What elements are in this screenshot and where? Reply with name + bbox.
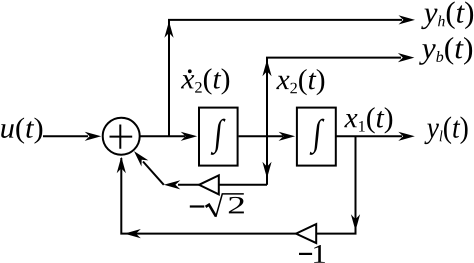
gain G1 (-sqrt2) triangle	[199, 175, 219, 194]
integrator U2	[297, 108, 336, 166]
wire: gain G2 output left and up into summer	[117, 157, 296, 238]
wire: gain G1 output left then diagonal into summer	[131, 148, 199, 189]
label: gain value -sqrt(2)	[190, 194, 244, 217]
wire: highpass branch up from summer output to y_h	[164, 15, 415, 136]
label: output y_l(t) lowpass	[424, 116, 467, 144]
wire: bandpass branch up from node x2 to y_b	[262, 53, 414, 136]
label: output y_b(t) bandpass	[419, 37, 472, 65]
gain G2 (-1) triangle	[296, 224, 316, 243]
label: output y_h(t) highpass	[421, 1, 473, 29]
wire: branch down from node x2 to gain G1	[219, 136, 272, 185]
wire: branch down from node x1 to gain G2	[316, 136, 360, 233]
wire: input u(t) into summer	[43, 132, 101, 141]
wire: integrator U2 output to y_l	[336, 132, 415, 141]
label: gain value -1	[299, 245, 325, 263]
label: x2(t) signal	[276, 69, 324, 95]
wire: summer to integrator U1	[140, 132, 197, 141]
label: xdot2(t) signal	[181, 68, 229, 94]
label: input u(t)	[1, 117, 42, 143]
label: x1(t) signal	[344, 107, 392, 133]
integrator U1	[199, 108, 238, 166]
wire: integrator U1 to integrator U2	[239, 132, 296, 141]
summing junction S1	[103, 118, 140, 155]
